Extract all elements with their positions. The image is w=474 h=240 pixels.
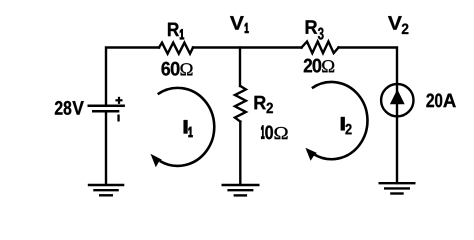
label R1 bbox=[168, 23, 179, 36]
wire R1 to R3 through node V1 bbox=[193, 46, 302, 48]
battery minus tick bbox=[117, 115, 119, 122]
wire R2 to middle ground bbox=[239, 122, 241, 185]
mesh current loop I1 arc bbox=[158, 88, 215, 166]
mesh current loop I2 arc bbox=[312, 82, 368, 159]
label 20A bbox=[426, 93, 455, 107]
wire top-left corner to R1 bbox=[106, 48, 159, 106]
battery V source 28V plates bbox=[88, 106, 125, 111]
label 20ohm bbox=[304, 59, 334, 73]
current source 20A circle bbox=[381, 84, 413, 116]
wire battery to left ground bbox=[105, 111, 107, 184]
mesh current loop I1 arrowhead bbox=[151, 154, 162, 167]
mesh label I2 bbox=[341, 117, 352, 134]
wire R3 to V2 corner down to current source bbox=[339, 48, 398, 184]
resistor R1 bbox=[159, 43, 193, 54]
ground right bbox=[379, 183, 416, 193]
ground middle bbox=[222, 185, 260, 195]
resistor R3 bbox=[302, 42, 339, 54]
label R2 bbox=[255, 96, 273, 113]
label 28V bbox=[55, 101, 84, 115]
label 60ohm bbox=[162, 62, 193, 76]
label R3 bbox=[306, 20, 324, 39]
node label V2 bbox=[388, 16, 408, 34]
current source arrow bbox=[390, 89, 405, 104]
wire node V1 down to R2 bbox=[239, 48, 241, 87]
mesh label I1 bbox=[184, 120, 188, 133]
label 10ohm bbox=[265, 125, 287, 139]
ground left bbox=[88, 185, 125, 195]
mesh current loop I2 arrowhead bbox=[305, 148, 316, 161]
node label V1 bbox=[230, 16, 244, 29]
resistor R2 bbox=[235, 86, 246, 122]
battery plus sign bbox=[115, 97, 122, 104]
